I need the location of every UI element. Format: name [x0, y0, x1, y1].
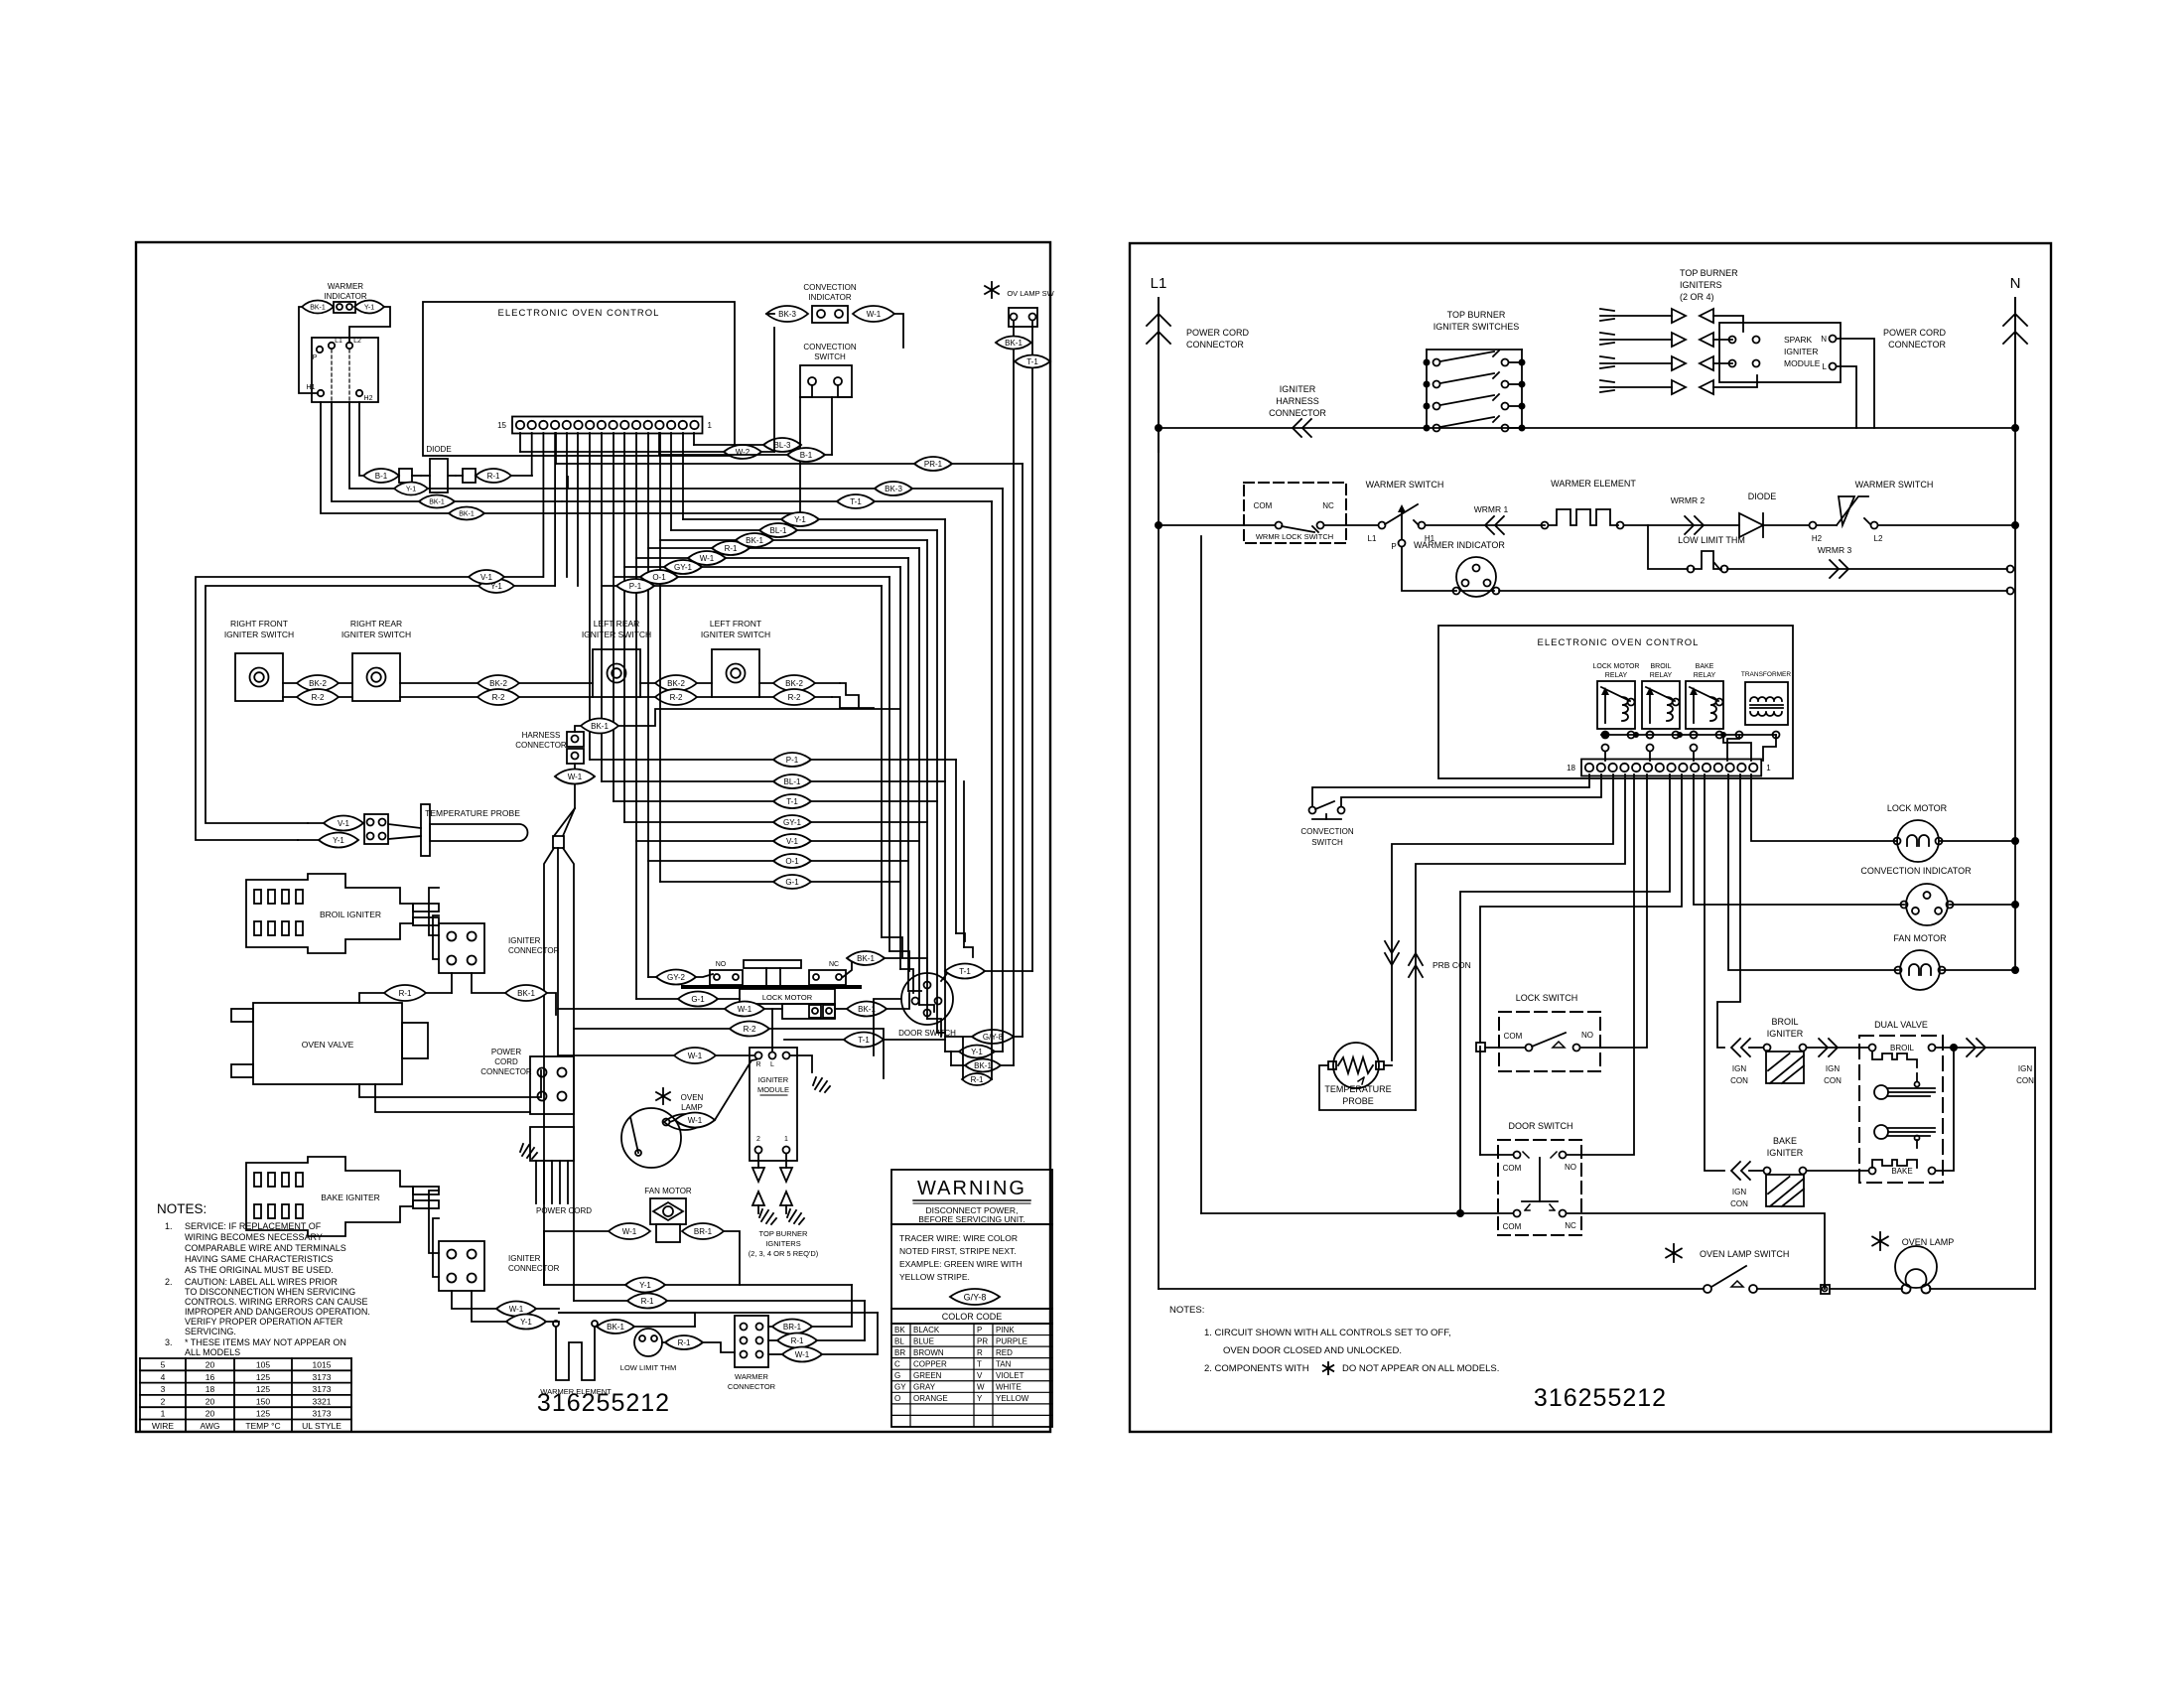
svg-text:OVEN VALVE: OVEN VALVE — [302, 1040, 354, 1050]
svg-text:IGNITERS: IGNITERS — [1680, 280, 1722, 290]
tracer wire example bullet G/Y-8 — [950, 1289, 1000, 1305]
svg-text:RELAY: RELAY — [1694, 672, 1716, 679]
wire H2 drop to diode row — [359, 402, 363, 476]
top burner igniter switch bank — [1426, 350, 1428, 428]
svg-text:L1: L1 — [335, 338, 342, 345]
wire risers from warmer rows to long bottom runs — [851, 1285, 853, 1327]
svg-text:WARMER ELEMENT: WARMER ELEMENT — [1551, 479, 1636, 489]
svg-text:L1: L1 — [1368, 534, 1377, 543]
svg-text:PRB CON: PRB CON — [1433, 960, 1471, 970]
power cord wires — [535, 1161, 537, 1203]
svg-text:PR-1: PR-1 — [924, 460, 943, 469]
svg-text:R-1: R-1 — [791, 1336, 804, 1345]
warmer element (left page) — [556, 1327, 595, 1380]
svg-text:O: O — [894, 1394, 900, 1403]
svg-text:P-1: P-1 — [786, 756, 799, 765]
warmer indicator lamp circle (right page) — [1456, 557, 1496, 597]
wire lock motor row — [1751, 774, 1897, 841]
right rear igniter switch box — [352, 653, 400, 701]
connector W-1 below harness connector — [555, 770, 595, 784]
probe connector block — [364, 814, 388, 844]
svg-text:20: 20 — [205, 1396, 215, 1406]
svg-text:G-1: G-1 — [785, 878, 799, 887]
svg-text:L2: L2 — [353, 338, 361, 345]
wire door switch left feed — [874, 999, 901, 1055]
svg-text:1: 1 — [1766, 764, 1771, 772]
svg-text:T-1: T-1 — [1026, 357, 1038, 366]
svg-text:125: 125 — [256, 1384, 270, 1394]
svg-text:LOW LIMIT THM: LOW LIMIT THM — [1678, 535, 1745, 545]
connector W-1 lock motor — [725, 1002, 764, 1017]
convection indicator circle (right page) — [1906, 884, 1948, 925]
probe taper — [388, 824, 421, 828]
top burner igniters triangles — [1600, 309, 1713, 323]
connector BR-1 warmer conn right1 — [772, 1320, 812, 1334]
svg-text:R-2: R-2 — [312, 693, 325, 702]
connector R-2 between RF and RR switches — [297, 689, 339, 705]
svg-text:T-1: T-1 — [850, 497, 862, 506]
svg-text:3: 3 — [161, 1384, 166, 1394]
svg-text:20: 20 — [205, 1360, 215, 1370]
svg-text:V: V — [977, 1371, 983, 1380]
dual valve dashed box — [1859, 1036, 1943, 1183]
svg-text:105: 105 — [256, 1360, 270, 1370]
svg-text:BROWN: BROWN — [913, 1348, 944, 1357]
svg-text:H2: H2 — [1812, 534, 1823, 543]
wire module right terminal — [790, 1055, 812, 1072]
svg-text:H1: H1 — [307, 384, 316, 391]
svg-text:IMPROPER AND DANGEROUS OPERATI: IMPROPER AND DANGEROUS OPERATION. — [185, 1307, 370, 1317]
connector R-2 right of LF switch — [773, 689, 815, 705]
warmer connector block (left page) — [735, 1316, 768, 1367]
svg-text:HARNESS: HARNESS — [1276, 396, 1319, 406]
wire lock switch feeds — [1480, 774, 1682, 1043]
wire bottom mesh returns — [559, 1313, 695, 1327]
relay bus wiring — [1601, 734, 1776, 736]
lock switch contacts — [1476, 1043, 1485, 1052]
connector BK-1 lock right — [847, 1002, 887, 1017]
wire long row BK-3 — [568, 488, 1003, 490]
svg-text:3321: 3321 — [313, 1396, 332, 1406]
svg-text:BL: BL — [894, 1336, 904, 1345]
wire warmer indicator loop right — [349, 307, 390, 343]
svg-text:BL-1: BL-1 — [770, 526, 787, 535]
warmer circuit bus L2 row — [1159, 524, 1275, 526]
svg-text:T: T — [977, 1359, 982, 1368]
wire broil igniter to connector — [429, 888, 439, 935]
wire bake connector down — [452, 1291, 559, 1309]
svg-text:R-1: R-1 — [725, 544, 738, 553]
svg-text:BAKE IGNITER: BAKE IGNITER — [321, 1193, 380, 1202]
junction node lamp line — [1821, 1285, 1830, 1294]
oven lamp asterisk (right page) — [1872, 1232, 1888, 1250]
svg-text:IGN: IGN — [1732, 1064, 1746, 1073]
svg-text:Y: Y — [977, 1394, 983, 1403]
electronic oven control U1 box (left page) — [423, 302, 735, 456]
svg-text:BK-1: BK-1 — [310, 305, 326, 312]
wire element to diode — [1624, 524, 1739, 526]
svg-text:RIGHT REAR: RIGHT REAR — [350, 619, 402, 629]
svg-text:WARMER SWITCH: WARMER SWITCH — [1366, 480, 1444, 490]
svg-text:W-1: W-1 — [738, 1005, 752, 1014]
svg-text:COPPER: COPPER — [913, 1359, 947, 1368]
svg-text:R-1: R-1 — [399, 989, 412, 998]
svg-text:LEFT FRONT: LEFT FRONT — [710, 619, 761, 629]
svg-text:FAN MOTOR: FAN MOTOR — [1893, 933, 1947, 943]
svg-text:IGNITERS: IGNITERS — [765, 1239, 800, 1248]
svg-text:T-1: T-1 — [786, 797, 798, 806]
svg-text:W-1: W-1 — [700, 554, 715, 563]
svg-text:R-2: R-2 — [788, 693, 801, 702]
svg-text:BLUE: BLUE — [913, 1336, 934, 1345]
svg-text:1. CIRCUIT SHOWN WITH ALL CON: 1. CIRCUIT SHOWN WITH ALL CONTROLS SET T… — [1204, 1328, 1451, 1338]
svg-text:(2 OR 4): (2 OR 4) — [1680, 292, 1714, 302]
wires fanning from center node — [544, 848, 554, 1285]
svg-text:Y-1: Y-1 — [971, 1048, 983, 1056]
svg-text:OVEN LAMP SWITCH: OVEN LAMP SWITCH — [1700, 1249, 1789, 1259]
svg-text:NO: NO — [716, 961, 727, 968]
connector T-1 door switch — [945, 964, 985, 979]
svg-text:BEFORE SERVICING UNIT.: BEFORE SERVICING UNIT. — [918, 1214, 1025, 1224]
connector BK-3 left of convection indicator — [766, 306, 808, 322]
wire ov lamp sw left wire down right edge — [1013, 321, 1015, 1065]
svg-text:WHITE: WHITE — [996, 1383, 1022, 1392]
svg-text:BK-1: BK-1 — [857, 954, 875, 963]
svg-text:DUAL VALVE: DUAL VALVE — [1874, 1020, 1928, 1030]
wire H1 drop long row — [321, 402, 800, 513]
connector W-1 warmer conn right3 — [782, 1347, 822, 1362]
svg-text:UL STYLE: UL STYLE — [302, 1421, 341, 1431]
svg-text:YELLOW: YELLOW — [996, 1394, 1029, 1403]
svg-text:BK-2: BK-2 — [667, 679, 685, 688]
wire pin4 pin5 drops — [566, 433, 568, 577]
wire upper cascade fan rows with connectors — [602, 585, 882, 587]
oven lamp switch contacts — [1159, 1288, 1704, 1290]
svg-text:125: 125 — [256, 1409, 270, 1419]
connector W-1 right of oven lamp — [675, 1113, 715, 1128]
svg-text:BROIL: BROIL — [1890, 1044, 1915, 1052]
svg-text:WRMR LOCK SWITCH: WRMR LOCK SWITCH — [1256, 532, 1333, 541]
svg-text:TRANSFORMER: TRANSFORMER — [1741, 671, 1792, 678]
svg-text:GY: GY — [894, 1383, 906, 1392]
svg-text:N: N — [1821, 335, 1827, 344]
svg-text:AWG: AWG — [201, 1421, 220, 1431]
svg-text:BK-1: BK-1 — [746, 536, 763, 545]
svg-text:PR: PR — [977, 1336, 988, 1345]
svg-text:* THESE ITEMS MAY NOT APPEAR O: * THESE ITEMS MAY NOT APPEAR ON — [185, 1337, 346, 1347]
svg-text:W: W — [977, 1383, 985, 1392]
svg-text:BROIL IGNITER: BROIL IGNITER — [320, 910, 381, 919]
warmer indicator lamp (left page) — [334, 302, 355, 313]
svg-text:3173: 3173 — [313, 1384, 332, 1394]
svg-text:BK-2: BK-2 — [309, 679, 327, 688]
svg-text:IGNITER: IGNITER — [1767, 1148, 1804, 1158]
svg-text:TEMPERATURE PROBE: TEMPERATURE PROBE — [425, 808, 520, 818]
svg-text:CON: CON — [1730, 1199, 1748, 1208]
svg-text:VERIFY PROPER OPERATION AFTER: VERIFY PROPER OPERATION AFTER — [185, 1317, 343, 1327]
spark module N terminal — [1830, 336, 1837, 343]
bake valve — [1874, 1125, 1888, 1139]
oven lamp switch asterisk — [1666, 1244, 1682, 1262]
svg-text:POWER CORD: POWER CORD — [1883, 328, 1947, 338]
svg-text:IGNITER SWITCH: IGNITER SWITCH — [224, 630, 294, 639]
svg-text:BR-1: BR-1 — [694, 1227, 713, 1236]
connector R-2 mid row — [478, 689, 519, 705]
svg-text:TOP BURNER: TOP BURNER — [1447, 310, 1506, 320]
svg-text:W-1: W-1 — [568, 772, 583, 781]
svg-text:CONNECTOR: CONNECTOR — [480, 1067, 532, 1076]
svg-text:L2: L2 — [1874, 534, 1883, 543]
svg-text:LOCK MOTOR: LOCK MOTOR — [762, 993, 813, 1002]
wire spark module N to bus — [1837, 339, 1874, 428]
connector R-1 right of diode — [476, 469, 511, 483]
svg-text:COLOR CODE: COLOR CODE — [942, 1312, 1003, 1322]
svg-text:G: G — [894, 1371, 900, 1380]
svg-text:BK-1: BK-1 — [459, 511, 475, 518]
svg-text:DIODE: DIODE — [1748, 491, 1777, 501]
svg-text:WARMER SWITCH: WARMER SWITCH — [1855, 480, 1934, 490]
connector Y-1 bake row — [506, 1315, 546, 1330]
wire probe loop left — [205, 586, 555, 823]
connector R-2 between LR and LF switches — [655, 689, 697, 705]
svg-text:IGNITER: IGNITER — [758, 1075, 789, 1084]
svg-text:INDICATOR: INDICATOR — [324, 292, 366, 301]
connector W-1 right of convection indicator — [853, 306, 894, 322]
svg-text:Y-1: Y-1 — [794, 515, 806, 524]
svg-text:CORD: CORD — [494, 1057, 518, 1066]
svg-text:LOCK SWITCH: LOCK SWITCH — [1516, 993, 1578, 1003]
wire connector taps down — [451, 973, 453, 993]
connector T-1 lower door area — [844, 1033, 884, 1048]
svg-text:2. COMPONENTS WITH: 2. COMPONENTS WITH — [1204, 1363, 1309, 1374]
wire lock NC to right — [843, 958, 852, 977]
svg-text:EXAMPLE: GREEN WIRE WITH: EXAMPLE: GREEN WIRE WITH — [899, 1259, 1023, 1269]
module outputs to top burner igniters — [757, 1154, 759, 1168]
svg-text:CON: CON — [2016, 1076, 2034, 1085]
svg-text:BL-3: BL-3 — [774, 441, 791, 450]
svg-text:W-1: W-1 — [688, 1116, 703, 1125]
connector G-1 lock motor left — [678, 992, 718, 1007]
svg-text:SERVICING.: SERVICING. — [185, 1327, 236, 1336]
svg-text:BR: BR — [894, 1348, 905, 1357]
svg-text:NC: NC — [1565, 1221, 1576, 1230]
wires warmer connector right to bundle — [768, 1326, 772, 1328]
lock motor body — [740, 989, 835, 1004]
svg-text:LOCK MOTOR: LOCK MOTOR — [1593, 663, 1640, 670]
svg-text:GY-1: GY-1 — [674, 563, 692, 572]
svg-text:R: R — [755, 1061, 760, 1068]
svg-text:WIRE: WIRE — [152, 1421, 175, 1431]
terminal drops to probe circuit — [1392, 774, 1613, 1060]
svg-text:CON: CON — [1730, 1076, 1748, 1085]
wire long vertical to bottom bus — [1460, 774, 1670, 1213]
svg-text:INDICATOR: INDICATOR — [808, 293, 851, 302]
svg-text:WARMER: WARMER — [328, 282, 363, 291]
svg-text:BAKE: BAKE — [1773, 1136, 1797, 1146]
svg-text:BK-1: BK-1 — [429, 499, 445, 506]
wire pin15 row to convection indicator drop — [519, 433, 521, 452]
connector R-1 warmer conn right2 — [777, 1333, 817, 1348]
warmer switch box (left page) with P L1 L2 H1 H2 terminals — [312, 338, 378, 402]
oven lamp asterisk (left page) — [656, 1088, 670, 1104]
wire pin3 drop joins Y-1 loop row — [554, 433, 556, 586]
svg-text:SWITCH: SWITCH — [814, 352, 846, 361]
svg-text:BK-3: BK-3 — [778, 310, 796, 319]
relay to terminal wires — [1602, 745, 1609, 752]
diode row left pad — [399, 469, 412, 483]
svg-text:R-2: R-2 — [492, 693, 505, 702]
wire igniter switch chain row R-2 — [283, 696, 352, 698]
L1 top bus horizontal — [1159, 427, 2015, 429]
wrmr lock switch contacts — [1276, 522, 1283, 529]
svg-text:BK-1: BK-1 — [974, 1061, 992, 1070]
diode row right pad — [463, 469, 476, 483]
wire from LF switch right to bundle — [840, 683, 859, 708]
broil igniter (left page) — [246, 874, 439, 953]
wire spark module L to bus — [1837, 366, 1856, 428]
svg-text:OV LAMP SW: OV LAMP SW — [1007, 289, 1054, 298]
connector R-1 under igniter connector — [384, 985, 426, 1001]
svg-text:VIOLET: VIOLET — [996, 1371, 1024, 1380]
svg-text:BROIL: BROIL — [1771, 1017, 1798, 1027]
svg-text:GRAY: GRAY — [913, 1383, 936, 1392]
wire oven valve to power cord connector — [359, 1070, 541, 1097]
wire valve outputs — [1936, 1047, 2035, 1049]
fan motor symbol (left page) — [650, 1198, 686, 1224]
broil igniter chevrons IGN CON — [1731, 1039, 1750, 1056]
oven valve box (left page) — [253, 1003, 402, 1084]
svg-text:L1: L1 — [1151, 275, 1167, 292]
svg-text:COM: COM — [1503, 1164, 1522, 1173]
connector BK-1 below ov lamp sw — [996, 337, 1031, 350]
svg-text:G/Y-8: G/Y-8 — [983, 1033, 1004, 1042]
svg-text:RELAY: RELAY — [1605, 672, 1628, 679]
svg-text:BK-1: BK-1 — [517, 989, 535, 998]
svg-text:WRMR 1: WRMR 1 — [1474, 504, 1509, 514]
svg-text:20: 20 — [205, 1409, 215, 1419]
broil igniter hatched block — [1764, 1045, 1771, 1052]
svg-text:4: 4 — [161, 1372, 166, 1382]
svg-text:LEFT REAR: LEFT REAR — [594, 619, 640, 629]
svg-text:P: P — [313, 354, 318, 361]
lock motor bar — [683, 985, 860, 989]
warmer switch internal dashed lines — [331, 350, 333, 402]
svg-text:NOTES:: NOTES: — [1169, 1305, 1204, 1316]
svg-text:TEMP °C: TEMP °C — [245, 1421, 280, 1431]
svg-text:N: N — [2010, 275, 2021, 292]
svg-text:CONNECTOR: CONNECTOR — [508, 1264, 560, 1273]
wire bottom long runs — [544, 1284, 852, 1286]
connector BK-1 left of warmer indicator — [302, 301, 334, 314]
right front igniter switch box — [235, 653, 283, 701]
svg-text:P: P — [1391, 542, 1396, 551]
svg-text:Y-1: Y-1 — [520, 1318, 532, 1327]
svg-text:W-1: W-1 — [688, 1052, 703, 1060]
svg-text:R-2: R-2 — [670, 693, 683, 702]
EOC terminal strip (right page) pins 18..1 — [1581, 760, 1761, 776]
wire diode to strip drop — [511, 475, 532, 477]
N bus vertical down right side — [2014, 428, 2016, 970]
connector GY-2 left — [656, 970, 696, 985]
svg-text:CONNECTOR: CONNECTOR — [1888, 340, 1946, 350]
svg-text:L: L — [1823, 362, 1828, 371]
wire long row PR-1 to right edge — [556, 463, 1023, 465]
oven lamp circle (left page) — [621, 1108, 681, 1168]
svg-text:5: 5 — [161, 1360, 166, 1370]
spark module L terminal — [1830, 363, 1837, 370]
svg-text:IGNITER: IGNITER — [1767, 1029, 1804, 1039]
low limit thm symbol — [1648, 525, 1688, 569]
ground at power cord — [520, 1144, 537, 1159]
svg-text:LOCK MOTOR: LOCK MOTOR — [1887, 803, 1948, 813]
svg-text:TOP BURNER: TOP BURNER — [759, 1229, 808, 1238]
svg-text:TEMPERATURE: TEMPERATURE — [1324, 1084, 1391, 1094]
svg-text:MODULE: MODULE — [757, 1085, 789, 1094]
wire right-edge verticals from convection/ov-lamp area — [773, 328, 775, 452]
svg-text:W-1: W-1 — [867, 310, 882, 319]
svg-text:BLACK: BLACK — [913, 1326, 940, 1334]
svg-text:CONVECTION: CONVECTION — [1300, 827, 1354, 836]
svg-text:MODULE: MODULE — [1784, 358, 1821, 368]
right page border frame — [1130, 243, 2051, 1432]
svg-text:WARMER INDICATOR: WARMER INDICATOR — [1414, 540, 1505, 550]
connector BK-2 between LR and LF switches — [655, 675, 697, 691]
svg-text:ALL MODELS: ALL MODELS — [185, 1347, 240, 1357]
svg-text:SWITCH: SWITCH — [1311, 838, 1343, 847]
svg-text:W-1: W-1 — [622, 1227, 637, 1236]
wire module L terminal up — [771, 1009, 773, 1052]
wire door switch top — [941, 971, 949, 981]
svg-text:R-1: R-1 — [971, 1075, 984, 1084]
svg-text:V-1: V-1 — [480, 573, 493, 582]
svg-text:IGNITER: IGNITER — [508, 1254, 541, 1263]
connector BK-1 right of igniter connector — [505, 985, 547, 1001]
svg-text:HARNESS: HARNESS — [522, 731, 561, 740]
wire L1 drop joins row BK-1 — [332, 402, 562, 501]
svg-text:L: L — [770, 1061, 774, 1068]
svg-text:R: R — [977, 1348, 983, 1357]
connector B-1 left of diode — [363, 469, 399, 483]
svg-text:O-1: O-1 — [785, 857, 799, 866]
svg-text:FAN MOTOR: FAN MOTOR — [644, 1187, 692, 1195]
wire broil igniter feed — [1717, 774, 1740, 1048]
ov lamp sw asterisk — [985, 282, 999, 298]
svg-text:2: 2 — [161, 1396, 166, 1406]
connector Y-1 bottom — [625, 1278, 665, 1293]
svg-text:BROIL: BROIL — [1650, 663, 1671, 670]
svg-text:BAKE: BAKE — [1891, 1167, 1912, 1176]
lock motor NO microswitch — [710, 970, 743, 985]
svg-text:2: 2 — [756, 1136, 760, 1143]
svg-text:POWER: POWER — [491, 1048, 521, 1056]
left page border frame — [136, 242, 1050, 1432]
igniter harness chevrons on bus — [1293, 419, 1311, 437]
svg-text:CONTROLS. WIRING ERRORS CAN C: CONTROLS. WIRING ERRORS CAN CAUSE — [185, 1297, 368, 1307]
wire warmer indicator loop left — [299, 307, 318, 393]
wire pin drops extended to lock motor rows — [635, 841, 637, 999]
bottom bus wire (right page) — [1201, 1212, 1513, 1214]
svg-text:HAVING SAME CHARACTERISTICS: HAVING SAME CHARACTERISTICS — [185, 1254, 333, 1264]
wrmr lock switch dashed box — [1244, 483, 1346, 543]
door switch dashed box — [1498, 1140, 1581, 1235]
spark igniter module box — [1719, 323, 1841, 382]
svg-text:3173: 3173 — [313, 1409, 332, 1419]
svg-text:T-1: T-1 — [959, 967, 971, 976]
color code table — [891, 1308, 1052, 1310]
svg-text:IGNITER: IGNITER — [1784, 347, 1818, 356]
connector BK-1 above NC — [847, 951, 885, 965]
svg-text:BK: BK — [894, 1326, 905, 1334]
